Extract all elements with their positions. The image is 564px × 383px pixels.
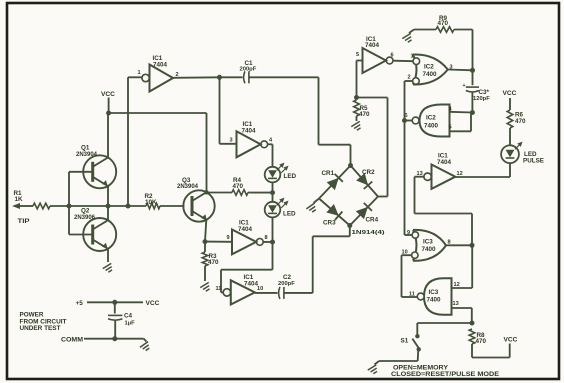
svg-text:7400: 7400 bbox=[427, 297, 442, 304]
node bridge bottom vertex bbox=[347, 223, 352, 228]
ground R3 bbox=[200, 282, 212, 292]
svg-text:10: 10 bbox=[257, 286, 263, 292]
wire Q2 emitter down bbox=[107, 249, 109, 262]
capacitor C4 bbox=[114, 302, 116, 313]
wire Q2 collector to output node bbox=[107, 206, 109, 220]
capacitor C2 bbox=[255, 292, 278, 294]
svg-text:470: 470 bbox=[438, 20, 449, 27]
svg-text:13: 13 bbox=[417, 171, 423, 177]
svg-text:12: 12 bbox=[454, 282, 460, 288]
svg-text:C4: C4 bbox=[124, 313, 133, 320]
node R5 junction bbox=[354, 95, 359, 100]
svg-text:10K: 10K bbox=[145, 199, 157, 206]
svg-text:Q1: Q1 bbox=[81, 145, 90, 152]
wire R8 to VCC bbox=[472, 357, 510, 359]
node Q1-Q2 output junction bbox=[106, 204, 111, 209]
svg-text:11: 11 bbox=[216, 286, 222, 292]
op-amp IC1 inverter C bbox=[363, 48, 387, 73]
wire to inverter F bbox=[471, 214, 473, 246]
nand IC2 gate2 bbox=[420, 105, 450, 137]
wire cross-couple vertical bbox=[404, 81, 406, 235]
wire inverter F output to LED3 bbox=[455, 176, 510, 178]
svg-text:2N3906: 2N3906 bbox=[74, 215, 96, 221]
wire bridge left vertex to ground bbox=[314, 199, 320, 204]
wire R2 to Q3 base bbox=[160, 205, 185, 207]
wire to inverter E input bbox=[272, 242, 274, 270]
svg-text:7404: 7404 bbox=[365, 42, 380, 49]
svg-text:1N914(4): 1N914(4) bbox=[352, 230, 385, 236]
resistor R1 bbox=[33, 203, 50, 209]
svg-text:IC3: IC3 bbox=[423, 239, 433, 246]
diode CR2 bbox=[356, 173, 368, 185]
svg-text:IC2: IC2 bbox=[424, 64, 434, 71]
svg-text:C2: C2 bbox=[283, 274, 292, 281]
svg-text:Q3: Q3 bbox=[182, 177, 191, 184]
svg-text:UNDER TEST: UNDER TEST bbox=[20, 326, 61, 332]
svg-text:CR1: CR1 bbox=[322, 170, 335, 177]
wire IC2g2 output stub bbox=[405, 120, 413, 122]
svg-text:7400: 7400 bbox=[423, 71, 438, 78]
wire output rail bbox=[69, 205, 146, 207]
svg-text:13: 13 bbox=[453, 301, 459, 307]
svg-text:CR3: CR3 bbox=[323, 220, 336, 227]
svg-text:+: + bbox=[463, 83, 466, 89]
diode CR1 bbox=[327, 178, 339, 190]
node TIP arrow bbox=[12, 203, 20, 209]
resistor R9 bbox=[472, 30, 474, 71]
resistor R5 bbox=[354, 100, 360, 116]
svg-text:TIP: TIP bbox=[18, 218, 31, 225]
node base-rail junction bbox=[67, 204, 72, 209]
resistor R4 bbox=[207, 192, 233, 194]
svg-text:9: 9 bbox=[227, 235, 230, 241]
svg-text:CR4: CR4 bbox=[366, 216, 379, 223]
svg-text:VCC: VCC bbox=[101, 91, 115, 98]
svg-text:200pF: 200pF bbox=[240, 67, 257, 73]
wire bridge right vertex bbox=[378, 196, 388, 198]
wire inverter D output bbox=[263, 241, 272, 243]
node C4 bottom junction bbox=[112, 336, 117, 341]
svg-text:470: 470 bbox=[233, 183, 244, 190]
LED 2 bbox=[265, 202, 281, 218]
wire LED2 down bbox=[272, 217, 274, 242]
wire bridge arm bottom-right bbox=[350, 197, 378, 226]
switch S1 bbox=[415, 334, 419, 338]
diode CR3 bbox=[326, 204, 338, 216]
svg-text:470: 470 bbox=[359, 111, 370, 118]
svg-text:IC2: IC2 bbox=[426, 115, 436, 122]
node C3 top junction bbox=[470, 68, 475, 73]
transistor Q2 bbox=[83, 218, 116, 251]
wire LED1 to LED2 bbox=[272, 182, 274, 201]
resistor R3 bbox=[204, 242, 206, 252]
svg-text:CR2: CR2 bbox=[362, 169, 375, 176]
node C3 bottom junction bbox=[470, 110, 475, 115]
capacitor C1 bbox=[220, 76, 243, 78]
svg-text:FROM CIRCUIT: FROM CIRCUIT bbox=[20, 319, 67, 325]
op-amp IC1 inverter D bbox=[232, 230, 256, 255]
node LED junction R4 bbox=[270, 190, 275, 195]
resistor R8 bbox=[469, 329, 475, 344]
svg-text:7404: 7404 bbox=[437, 159, 452, 166]
wire IC3-1 out to pin12 bbox=[471, 245, 473, 288]
svg-text:+5: +5 bbox=[76, 300, 84, 307]
node Q3 collector junction bbox=[204, 190, 208, 194]
transistor Q1 bbox=[83, 155, 116, 188]
wire IC3-1 output bbox=[446, 244, 472, 246]
LED 1 bbox=[265, 167, 281, 183]
op-amp IC1 inverter F bbox=[432, 165, 456, 189]
wire VCC rail to Q3 bbox=[109, 112, 207, 114]
svg-text:470: 470 bbox=[476, 338, 487, 345]
transistor Q3 bbox=[183, 190, 214, 221]
svg-text:9: 9 bbox=[407, 230, 410, 236]
svg-text:5: 5 bbox=[449, 125, 452, 131]
svg-text:200pF: 200pF bbox=[278, 281, 295, 287]
nand IC2 gate1 bbox=[413, 55, 448, 85]
svg-text:6: 6 bbox=[391, 53, 394, 59]
svg-text:PULSE: PULSE bbox=[523, 158, 544, 165]
svg-text:2N3904: 2N3904 bbox=[76, 152, 98, 158]
node cross-couple junction bbox=[402, 118, 407, 123]
op-amp IC1 inverter A bbox=[150, 65, 174, 92]
wire pin13 output bbox=[452, 307, 472, 309]
svg-text:C3*: C3* bbox=[479, 89, 490, 96]
capacitor C3 bbox=[472, 70, 474, 85]
wire S1 to ground bbox=[417, 351, 420, 361]
ground S1 bbox=[368, 365, 380, 375]
svg-text:COMM: COMM bbox=[61, 337, 83, 344]
svg-text:3: 3 bbox=[230, 138, 233, 144]
node C1 junction bbox=[217, 75, 222, 80]
node C4 top junction bbox=[112, 300, 117, 305]
wire bridge arm top-left bbox=[319, 166, 351, 199]
svg-text:2N3904: 2N3904 bbox=[177, 184, 199, 190]
resistor R2 bbox=[146, 203, 160, 209]
node feedback junction bbox=[126, 204, 131, 209]
op-amp IC1 inverter B bbox=[237, 131, 261, 157]
diode CR4 bbox=[356, 207, 368, 219]
svg-text:LED: LED bbox=[283, 210, 296, 217]
svg-text:VCC: VCC bbox=[504, 337, 518, 344]
svg-text:LED: LED bbox=[284, 173, 297, 180]
wire inverter A output bbox=[173, 76, 220, 79]
wire +5 to VCC bbox=[87, 301, 143, 303]
node INV-D output junction bbox=[270, 240, 275, 245]
svg-text:470: 470 bbox=[515, 118, 526, 125]
svg-text:1K: 1K bbox=[15, 196, 24, 203]
svg-text:120pF: 120pF bbox=[473, 96, 490, 102]
wire pin10 to pin11 link bbox=[402, 254, 412, 256]
LED PULSE bbox=[501, 145, 519, 163]
svg-text:Q2: Q2 bbox=[81, 208, 90, 215]
svg-text:CLOSED=RESET/PULSE MODE: CLOSED=RESET/PULSE MODE bbox=[391, 371, 499, 378]
wire C1 to bridge top bbox=[318, 77, 320, 144]
wire junction to S1 bbox=[417, 322, 472, 324]
node R8 junction bbox=[470, 321, 475, 326]
node VCC rail junction bbox=[106, 111, 111, 116]
svg-text:7404: 7404 bbox=[238, 226, 253, 233]
wire IC2-1 output bbox=[448, 69, 473, 72]
wire to inverter C input bbox=[356, 61, 358, 98]
wire C2 to bridge bottom bbox=[312, 236, 314, 293]
node IC3 output junction bbox=[470, 243, 475, 248]
wire to inverter D input bbox=[205, 241, 232, 243]
nand IC3 gate2 bbox=[424, 278, 452, 315]
wire R1 to base rail bbox=[50, 205, 69, 207]
ground R9 bbox=[402, 33, 414, 43]
ground COMM bbox=[140, 342, 152, 353]
wire inverter B output to LED1 bbox=[268, 143, 273, 145]
nand IC3 gate1 bbox=[413, 230, 446, 261]
wire Q3 emitter bbox=[205, 220, 206, 242]
wire junction to inverter B bbox=[219, 77, 221, 144]
svg-text:470: 470 bbox=[208, 259, 219, 266]
resistor R6 bbox=[509, 128, 511, 146]
svg-text:2: 2 bbox=[408, 75, 411, 81]
wire pin4 to C3 node bbox=[450, 111, 473, 114]
node bridge top vertex bbox=[348, 163, 353, 168]
svg-text:VCC: VCC bbox=[503, 90, 517, 97]
svg-text:5: 5 bbox=[356, 52, 359, 58]
ground Q2 emitter bbox=[103, 263, 115, 273]
svg-text:POWER: POWER bbox=[20, 312, 45, 318]
svg-text:1: 1 bbox=[138, 70, 141, 76]
wire Q1 collector bbox=[107, 113, 109, 158]
svg-text:7404: 7404 bbox=[153, 61, 168, 68]
wire COMM line bbox=[84, 338, 144, 340]
svg-text:IC3: IC3 bbox=[429, 289, 439, 296]
wire VCC stem bbox=[108, 98, 110, 114]
ground R5 bbox=[351, 121, 363, 131]
op-amp IC1 inverter E bbox=[231, 280, 255, 304]
svg-text:S1: S1 bbox=[401, 338, 409, 345]
wire Q1 emitter to output node bbox=[107, 186, 109, 206]
ground bridge left bbox=[306, 203, 318, 214]
svg-text:1: 1 bbox=[411, 54, 414, 60]
wire base rail bbox=[68, 172, 70, 235]
svg-text:1µF: 1µF bbox=[125, 320, 136, 326]
wire bridge arm bottom-left bbox=[319, 199, 350, 226]
wire IC2 pin2 stub bbox=[405, 80, 413, 82]
wire bridge arm top-right bbox=[351, 166, 379, 197]
svg-text:7400: 7400 bbox=[424, 122, 439, 129]
svg-text:VCC: VCC bbox=[146, 300, 160, 307]
node Q3 emitter junction bbox=[203, 239, 208, 244]
wire feedback to IC1 pin1 bbox=[127, 77, 129, 206]
wire inverter C out to IC2 pin1 bbox=[393, 60, 413, 63]
svg-text:7400: 7400 bbox=[422, 246, 437, 253]
svg-text:7404: 7404 bbox=[242, 128, 257, 135]
svg-text:8: 8 bbox=[265, 235, 268, 241]
wire pin5 loop bbox=[450, 130, 472, 132]
svg-text:11: 11 bbox=[409, 292, 415, 298]
